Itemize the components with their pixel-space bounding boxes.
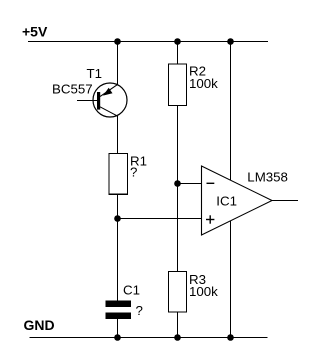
svg-text:C1: C1	[123, 283, 140, 298]
svg-text:?: ?	[136, 303, 143, 318]
pin symbol plus	[206, 215, 214, 223]
junction: GND / C1 branch	[114, 334, 121, 341]
wire: IC1 V- to GND rail	[230, 221, 232, 338]
pin symbol minus	[207, 182, 215, 184]
node B: R2/R3/-input junction	[174, 180, 181, 187]
resistor R3	[168, 272, 186, 312]
svg-text:+5V: +5V	[22, 24, 48, 40]
svg-text:?: ?	[130, 164, 137, 179]
wire: +5V rail to T1 emitter	[117, 42, 119, 85]
svg-text:IC1: IC1	[216, 193, 237, 208]
wire: +5V rail	[28, 41, 268, 43]
svg-text:LM358: LM358	[247, 170, 288, 185]
svg-text:GND: GND	[24, 317, 55, 333]
wire: IC1 output	[272, 200, 298, 202]
junction: GND / IC1 V- branch	[227, 334, 234, 341]
node A: R1/C1/+input junction	[114, 215, 121, 222]
capacitor C1	[106, 301, 132, 320]
wire: node B to IC1 inverting input	[178, 183, 202, 185]
wire: R3 to GND rail	[177, 312, 179, 338]
svg-text:100k: 100k	[189, 284, 218, 299]
wire: GND rail	[30, 337, 268, 339]
junction: GND / R3 branch	[174, 334, 181, 341]
junction: +5V / T1 emitter branch	[114, 38, 121, 45]
wire: R1 to node A	[117, 194, 119, 218]
wire: +5V rail to IC1 V+	[230, 42, 232, 181]
junction: +5V / IC1 V+ branch	[227, 38, 234, 45]
wire: +5V rail to R2	[177, 42, 179, 65]
wire: T1 collector to R1	[117, 116, 119, 154]
svg-text:BC557: BC557	[52, 81, 93, 96]
wire: node A to C1	[117, 219, 119, 301]
wire: C1 to GND rail	[117, 319, 119, 338]
resistor R1	[109, 154, 127, 195]
resistor R2	[168, 64, 186, 106]
junction: +5V / R2 branch	[174, 38, 181, 45]
svg-text:T1: T1	[87, 66, 103, 81]
op-amp IC1 (LM358)	[202, 166, 273, 235]
wire: R2 to R3 (divider)	[177, 106, 179, 272]
wire: node A to IC1 non-inverting input	[118, 218, 202, 220]
svg-text:100k: 100k	[189, 76, 218, 91]
transistor T1 (PNP BC557)	[77, 83, 127, 117]
